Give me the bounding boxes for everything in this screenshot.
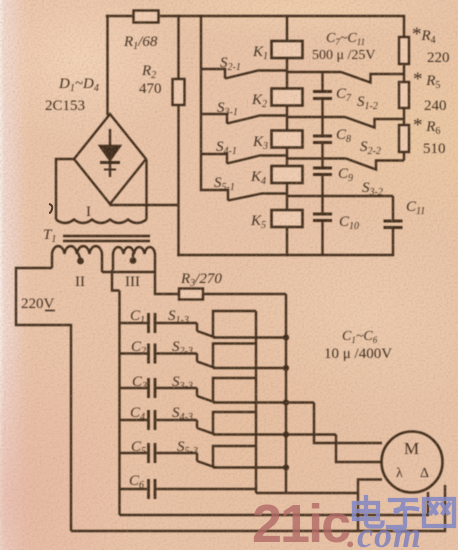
capacitor C5	[120, 443, 198, 463]
wire R2 bus vertical	[177, 16, 179, 255]
capacitor C3	[120, 378, 198, 398]
wire bottom bus from bank left to motor bottom	[120, 492, 429, 515]
capacitor C2	[120, 344, 198, 364]
wire row5 rung	[213, 466, 286, 468]
wire right resistor bus	[403, 16, 405, 161]
wire bridge dc output to bus	[110, 204, 179, 205]
wire relay section bottom bus	[179, 254, 394, 256]
wire mains bottom run to motor	[71, 485, 445, 531]
capacitor C1	[120, 313, 198, 333]
transformer secondary winding III	[113, 247, 155, 272]
node dot rung5	[283, 464, 289, 470]
node dot rung3	[283, 399, 289, 405]
resistor R2	[173, 79, 185, 105]
wire bridge top feed	[106, 16, 108, 114]
switch S3-1	[201, 114, 287, 124]
bridge rectifier D1-D4	[74, 114, 146, 204]
label 220V underline	[45, 310, 55, 312]
capacitor C11	[384, 196, 403, 255]
wire relay coil bus	[286, 16, 288, 255]
watermark Chinese characters dian-zi-wang	[354, 497, 454, 530]
wire row4 upper contact	[213, 412, 256, 435]
wire motor feed C from mains	[358, 480, 382, 532]
relay coil K3	[272, 131, 303, 148]
wire row5 upper contact	[213, 446, 256, 468]
wire 220V input from winding II	[16, 268, 71, 531]
switch S3-3	[197, 388, 216, 403]
switch S5-3	[197, 453, 216, 468]
wire between windings	[102, 271, 156, 273]
wire top rail	[107, 15, 404, 17]
wire winding III left terminal down to capacitor bank bus	[112, 270, 120, 291]
relay coil K2	[272, 89, 303, 106]
wire motor feed A	[314, 403, 382, 444]
switch S2-2	[287, 117, 404, 128]
transformer core T1	[63, 236, 150, 241]
relay coil K4	[272, 166, 303, 183]
capacitor C8	[313, 117, 332, 159]
wire row3 rung to motor tap	[213, 401, 314, 403]
diode inside bridge	[100, 129, 120, 177]
resistor R3	[179, 289, 203, 300]
switch S4-3	[197, 420, 216, 435]
transformer secondary winding II	[52, 246, 102, 272]
wire lower bank feed bus from R3	[285, 294, 287, 493]
switch S1-3	[197, 323, 216, 338]
capacitor C9	[313, 159, 332, 197]
wire motor feed B	[336, 435, 382, 463]
resistor R5	[399, 82, 409, 108]
wire row2 rung	[213, 367, 286, 369]
capacitor C10	[313, 196, 332, 255]
node dot winding III tap	[130, 257, 137, 264]
capacitor C6	[120, 479, 257, 499]
switch S5-1	[201, 190, 287, 201]
motor M	[382, 432, 443, 493]
scan speck	[49, 204, 52, 213]
wire row2 upper contact	[213, 344, 256, 369]
wire bottom link bank to C feed	[256, 492, 358, 494]
switch S3-2	[287, 159, 404, 170]
capacitor C7	[313, 72, 332, 117]
wire row3 upper contact	[213, 378, 256, 403]
wire row1 rung	[213, 336, 286, 338]
switch S2-3	[197, 354, 216, 369]
switch S2-1	[201, 69, 287, 79]
switch S1-2	[287, 72, 404, 83]
relay coil K1	[272, 41, 303, 58]
node dot rung2	[283, 365, 289, 371]
wire left blade bus	[200, 16, 202, 190]
node dot rung1	[283, 334, 289, 340]
capacitor C4	[120, 410, 198, 430]
node dot rung4	[283, 431, 289, 437]
wire row to C11	[287, 195, 393, 197]
resistor R1	[134, 11, 159, 23]
wire lower bank left bus	[118, 291, 120, 516]
resistor R6	[399, 125, 409, 152]
node dot winding II tap	[77, 258, 84, 265]
resistor R4	[399, 37, 409, 64]
wire row4 rung to motor tap	[213, 433, 336, 435]
wire row1 upper contact	[213, 311, 256, 338]
switch S4-1	[201, 154, 287, 164]
transformer primary winding I	[56, 159, 147, 223]
wire lower bank inner bus	[255, 311, 257, 493]
relay coil K5	[272, 210, 303, 227]
wire winding III right terminal to R3	[155, 272, 286, 294]
